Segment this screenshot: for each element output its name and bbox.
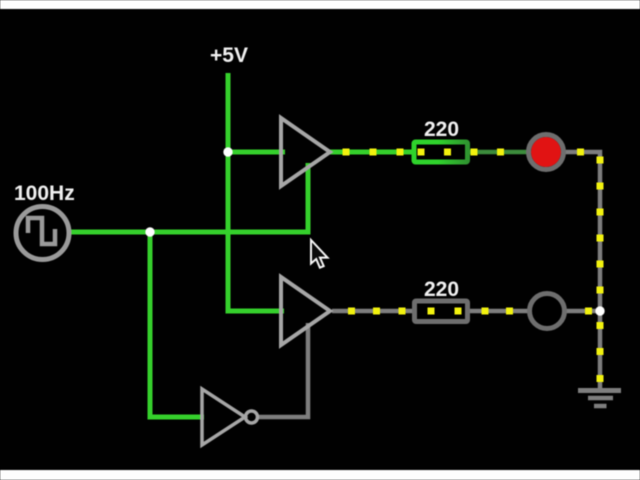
LED D1 ring (529, 135, 564, 170)
current dots inside resistor R2 (428, 308, 462, 315)
LED D2 ring (off) (530, 294, 565, 329)
svg-text:220: 220 (424, 278, 459, 301)
current dots on R1-D1 wire (471, 149, 505, 156)
wire: node B down and right to inverter U3 input (150, 232, 204, 417)
current dots on U2 output wire (348, 308, 406, 315)
ground symbol (578, 391, 621, 407)
wire: +5V rail down to tri-state buffer U2 input (228, 73, 284, 311)
resistor R2 box (415, 301, 468, 322)
current dots on U1 output wire (343, 149, 404, 156)
node C junction dot (right rail) (595, 306, 604, 315)
tri-state buffer U2 (281, 277, 330, 345)
current dots on R2-D2 wire (482, 308, 514, 315)
wire: LED D2 to node C on right rail (565, 309, 600, 314)
wire: inverter U3 output to U2 enable (258, 323, 308, 417)
LED D1 red disc (lit) (531, 137, 561, 167)
resistor R1 box (414, 142, 468, 162)
wire: resistor R2 to LED D2 (468, 309, 529, 314)
wire: LED D1 to right rail and down to ground (564, 152, 600, 390)
wire: 100Hz source output to U1 enable (corner up at x=308) (71, 163, 308, 232)
inverter U3 bubble (246, 411, 258, 423)
wire: node A to tri-state buffer U1 input (228, 150, 285, 155)
inverter U3 triangle (202, 389, 245, 445)
wire: resistor R1 to LED D1 (mid voltage, dark green) (468, 150, 528, 155)
svg-text:220: 220 (424, 118, 459, 141)
current dot before node C (585, 308, 592, 315)
tri-state buffer U1 (281, 118, 330, 186)
wire: U1 output to resistor R1 (330, 150, 413, 155)
square-wave source V1 (100Hz) body (16, 207, 69, 260)
node B junction dot (source line) (145, 227, 154, 236)
wire: U2 output to resistor R2 (332, 309, 413, 314)
current dots on right rail below node C (597, 322, 604, 382)
top letterbox bar (0, 0, 640, 9)
current dots on right rail above node C (597, 157, 604, 294)
svg-text:+5V: +5V (210, 44, 248, 67)
svg-text:100Hz: 100Hz (14, 182, 75, 205)
square-wave glyph inside V1 (28, 218, 55, 244)
mouse cursor (311, 240, 328, 268)
current dots inside resistor R1 (418, 149, 452, 156)
current dot after LED D1 (577, 149, 584, 156)
bottom letterbox bar (0, 470, 640, 480)
node A junction dot (+5V rail) (223, 147, 232, 156)
